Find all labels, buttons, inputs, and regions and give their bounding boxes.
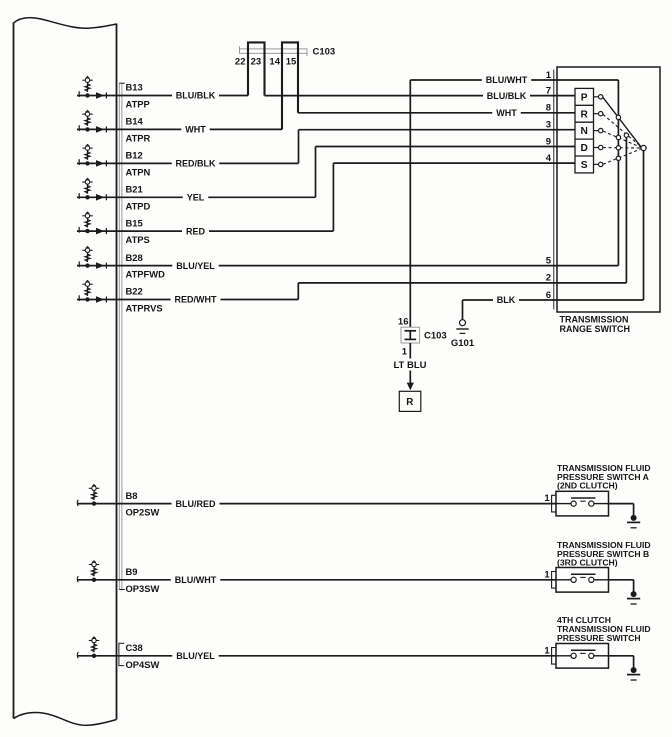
PCM pin symbol at B15 xyxy=(79,212,106,234)
PCM connector B bracket xyxy=(119,83,125,589)
PCM pin symbol at C38 xyxy=(77,637,99,658)
svg-text:WHT: WHT xyxy=(496,108,517,118)
wire LT BLU upper segment xyxy=(409,343,411,359)
wire range switch vertical to pin 2 xyxy=(625,135,627,283)
PCM pin symbol at B14 xyxy=(79,110,106,132)
wire BLU/YEL from pin B28 xyxy=(77,265,618,267)
svg-text:LT BLU: LT BLU xyxy=(393,360,426,371)
wire BLU/WHT range switch pin 1 xyxy=(410,79,618,81)
label pin B22/ATPRVS xyxy=(126,286,163,314)
label range switch pin 6 xyxy=(546,290,551,301)
contact circle S xyxy=(599,162,603,166)
label range switch pin 5 xyxy=(546,255,552,266)
svg-text:R: R xyxy=(581,109,589,120)
label pin 1 of pressure switch 4th clutch xyxy=(544,645,550,656)
svg-text:B21: B21 xyxy=(126,184,143,195)
svg-text:ATPD: ATPD xyxy=(126,200,151,211)
svg-text:BLU/BLK: BLU/BLK xyxy=(487,91,527,101)
wire RED/WHT to range switch pin 2 xyxy=(298,282,626,284)
wire range switch common vertical (pin1-pin5) xyxy=(617,80,619,266)
label pin B13/ATPP xyxy=(126,82,150,110)
label range switch pin 7 xyxy=(546,85,551,96)
ground at pressure switch 4th clutch xyxy=(609,656,641,680)
svg-text:BLU/WHT: BLU/WHT xyxy=(486,75,528,85)
label range switch pin 4 xyxy=(546,153,552,164)
svg-text:D: D xyxy=(581,143,588,154)
contact circle D crossing xyxy=(616,146,620,150)
svg-text:BLU/YEL: BLU/YEL xyxy=(176,651,215,661)
wire RED/BLK from pin B12 xyxy=(77,162,299,164)
svg-text:23: 23 xyxy=(251,56,262,67)
ground at pressure switch B (3rd clutch) xyxy=(609,580,641,604)
wire RED from pin B15 xyxy=(77,230,333,232)
svg-text:16: 16 xyxy=(398,316,409,327)
ground at pressure switch A (2nd clutch) xyxy=(609,504,641,528)
svg-text:RANGE SWITCH: RANGE SWITCH xyxy=(560,324,631,334)
svg-text:BLU/RED: BLU/RED xyxy=(176,499,216,509)
PCM pin symbol at B22 xyxy=(79,281,106,303)
selector arm D position (dashed) xyxy=(603,147,641,149)
ground G101 symbol xyxy=(456,320,468,334)
selector common node xyxy=(641,145,646,150)
svg-text:1: 1 xyxy=(546,70,552,81)
svg-text:1: 1 xyxy=(402,347,408,358)
svg-text:R: R xyxy=(406,397,413,408)
svg-text:5: 5 xyxy=(546,255,552,266)
label wire colour BLK xyxy=(497,295,516,305)
svg-text:4: 4 xyxy=(546,153,552,164)
svg-text:BLU/YEL: BLU/YEL xyxy=(176,261,215,271)
svg-text:9: 9 xyxy=(546,136,551,147)
label wire colour BLU/YEL xyxy=(176,651,215,661)
label pin B21/ATPD xyxy=(126,184,151,212)
label wire colour WHT (right) xyxy=(496,108,517,118)
svg-text:B15: B15 xyxy=(126,217,143,228)
label wire colour RED xyxy=(186,226,206,236)
label wire colour BLU/BLK (right) xyxy=(487,91,527,101)
label wire colour WHT xyxy=(185,125,206,135)
label C103 (lower) xyxy=(424,331,447,342)
label range switch pin 2 xyxy=(546,273,551,284)
svg-text:B12: B12 xyxy=(126,150,143,161)
svg-text:B8: B8 xyxy=(126,490,138,501)
label transmission range switch xyxy=(560,315,631,334)
connector C103 bar xyxy=(240,46,308,56)
label G101 xyxy=(451,338,475,349)
transmission fluid pressure switch 4th clutch xyxy=(552,644,609,669)
svg-text:ATPRVS: ATPRVS xyxy=(126,303,163,314)
svg-text:B9: B9 xyxy=(126,566,138,577)
svg-text:YEL: YEL xyxy=(187,193,205,203)
contact circle R xyxy=(599,112,603,116)
svg-text:C103: C103 xyxy=(424,331,447,342)
svg-text:B13: B13 xyxy=(126,82,143,93)
svg-text:P: P xyxy=(581,92,588,103)
wire WHT C103 pin 15 to range switch pin 8 xyxy=(298,112,575,114)
label wire colour BLU/BLK xyxy=(176,91,216,101)
PCM connector C bracket xyxy=(119,643,124,665)
PCM pin symbol at B8 xyxy=(77,485,99,506)
svg-text:G101: G101 xyxy=(451,338,475,349)
wire to ground G101 xyxy=(462,300,464,320)
PCM module torn bottom edge xyxy=(14,713,117,726)
transmission range switch outline xyxy=(557,67,660,312)
label pin 1 (lower C103) xyxy=(402,347,408,358)
contact circle N crossing xyxy=(616,135,620,139)
label pressure switch A (2nd clutch) xyxy=(557,463,651,491)
contact circle R crossing xyxy=(624,133,628,137)
svg-text:ATPN: ATPN xyxy=(126,166,151,177)
selector arm S position (dashed) xyxy=(603,149,641,164)
label connector C103 xyxy=(313,46,336,57)
label position S xyxy=(581,160,588,171)
label pin B28/ATPFWD xyxy=(126,252,166,280)
label pin B15/ATPS xyxy=(126,217,150,245)
svg-text:BLK: BLK xyxy=(497,295,516,305)
contact circle N xyxy=(599,128,603,132)
C103 pass-through staple pins 14-15 xyxy=(282,42,298,129)
PCM module left edge wire xyxy=(13,23,15,719)
svg-text:8: 8 xyxy=(546,103,551,114)
svg-text:PRESSURE SWITCH: PRESSURE SWITCH xyxy=(557,633,641,643)
svg-text:ATPFWD: ATPFWD xyxy=(126,269,166,280)
PCM pin symbol at B13 xyxy=(79,77,106,99)
transmission fluid pressure switch B (3rd clutch) xyxy=(552,568,609,593)
label pin 1 of pressure switch B (3rd clutch) xyxy=(544,569,550,580)
selector arm N position (dashed) xyxy=(603,131,641,147)
PCM module torn top edge xyxy=(14,18,117,29)
svg-text:22: 22 xyxy=(235,56,246,67)
label C103 pin 23 xyxy=(251,56,262,67)
wire BLU/WHT vertical to C103 pin 16 xyxy=(409,80,411,327)
wire BLU/BLK from pin B13 xyxy=(77,95,248,97)
node R (back-up lights) xyxy=(399,391,421,411)
label C103 pin 14 xyxy=(269,56,280,67)
label position D xyxy=(581,143,588,154)
svg-text:1: 1 xyxy=(544,569,550,580)
svg-text:6: 6 xyxy=(546,290,551,301)
label pin B14/ATPR xyxy=(126,116,151,144)
svg-text:7: 7 xyxy=(546,85,551,96)
wire BLK ground to range switch pin 6 xyxy=(463,299,644,301)
svg-text:(2ND CLUTCH): (2ND CLUTCH) xyxy=(557,481,618,491)
svg-text:BLU/WHT: BLU/WHT xyxy=(175,575,217,585)
svg-text:15: 15 xyxy=(286,56,297,67)
label range switch pin 3 xyxy=(546,120,551,131)
svg-text:OP4SW: OP4SW xyxy=(126,659,160,670)
wire jog B22 to range-switch pin 2 row xyxy=(297,283,299,300)
label position N xyxy=(581,126,588,137)
svg-text:RED: RED xyxy=(186,226,206,236)
wire WHT from pin B14 xyxy=(77,128,282,130)
svg-text:C103: C103 xyxy=(313,46,336,57)
svg-text:BLU/BLK: BLU/BLK xyxy=(176,91,216,101)
svg-text:WHT: WHT xyxy=(185,125,206,135)
label wire colour BLU/WHT xyxy=(175,575,217,585)
label pressure switch B (3rd clutch) xyxy=(557,540,651,568)
C103 pass-through staple pins 22-23 xyxy=(248,42,265,95)
label range switch pin 9 xyxy=(546,136,551,147)
svg-text:1: 1 xyxy=(544,493,550,504)
label range switch pin 8 xyxy=(546,103,551,114)
svg-text:B22: B22 xyxy=(126,286,143,297)
label range switch pin 1 xyxy=(546,70,552,81)
wire jog B21 to range-switch pin 9 row xyxy=(315,147,317,198)
label wire colour BLU/RED xyxy=(176,499,216,509)
wire jog B15 to range-switch pin 4 row xyxy=(332,163,334,231)
svg-text:ATPR: ATPR xyxy=(126,132,151,143)
svg-text:B14: B14 xyxy=(126,116,144,127)
svg-text:S: S xyxy=(581,160,588,171)
svg-text:2: 2 xyxy=(546,273,551,284)
selector arm R position (dashed) xyxy=(603,114,641,146)
svg-text:ATPS: ATPS xyxy=(126,234,150,245)
label pin B8/OP2SW xyxy=(126,490,160,518)
svg-text:3: 3 xyxy=(546,120,551,131)
svg-text:OP3SW: OP3SW xyxy=(126,583,160,594)
svg-text:RED/BLK: RED/BLK xyxy=(176,159,216,169)
label wire colour RED/BLK xyxy=(176,159,216,169)
label pin B12/ATPN xyxy=(126,150,151,178)
label wire colour BLU/YEL xyxy=(176,261,215,271)
wire BLU/RED from pin B8 xyxy=(77,503,556,505)
wire range switch vertical to pin 6 xyxy=(643,148,645,300)
label C103 pin 22 xyxy=(235,56,246,67)
wire BLU/WHT from pin B9 xyxy=(77,579,556,581)
svg-text:RED/WHT: RED/WHT xyxy=(175,295,217,305)
label wire colour YEL xyxy=(187,193,205,203)
label position R xyxy=(581,109,589,120)
wire YEL from pin B21 xyxy=(77,196,316,198)
label C103 pin 15 xyxy=(286,56,297,67)
range switch contact stubs xyxy=(594,97,599,165)
wire RED to range switch pin 4 xyxy=(333,162,575,164)
wire jog B12 to range-switch pin 3 row xyxy=(298,130,300,164)
wire YEL to range switch pin 9 xyxy=(316,146,576,148)
svg-text:(3RD CLUTCH): (3RD CLUTCH) xyxy=(557,558,618,568)
PCM pin symbol at B9 xyxy=(77,561,99,582)
PCM pin symbol at B28 xyxy=(79,247,106,269)
contact circle D xyxy=(599,145,603,149)
wire BLU/BLK C103 pin 23 to range switch pin 7 xyxy=(265,95,576,97)
connector C103 pin 16 body xyxy=(401,327,420,343)
svg-text:OP2SW: OP2SW xyxy=(126,507,160,518)
PCM pin symbol at B12 xyxy=(79,144,106,166)
contact circle P xyxy=(599,95,603,99)
label position P xyxy=(581,92,588,103)
wire BLU/YEL from pin C38 xyxy=(77,655,556,657)
label pressure switch 4th clutch xyxy=(557,615,651,643)
label wire colour RED/WHT xyxy=(175,295,217,305)
svg-text:1: 1 xyxy=(544,645,550,656)
svg-text:14: 14 xyxy=(269,56,280,67)
label wire colour BLU/WHT xyxy=(486,75,528,85)
label pin 1 of pressure switch A (2nd clutch) xyxy=(544,493,550,504)
wire riser B13 to C103 pin 22 xyxy=(247,53,249,96)
selector arm P position (solid) xyxy=(603,97,641,147)
label wire colour LT BLU xyxy=(393,360,426,371)
wire RED/WHT from pin B22 xyxy=(77,299,298,301)
PCM module right edge wire xyxy=(116,24,118,720)
PCM pin symbol at B21 xyxy=(79,178,106,200)
wire riser B14 to C103 pin 14 xyxy=(281,53,283,129)
contact circle S crossing xyxy=(616,156,620,160)
label pin C38/OP4SW xyxy=(126,642,160,670)
svg-text:ATPP: ATPP xyxy=(126,99,150,110)
svg-text:N: N xyxy=(581,126,588,137)
label C103 pin 16 xyxy=(398,316,409,327)
wire LT BLU lower segment with arrow xyxy=(407,371,414,391)
svg-text:C38: C38 xyxy=(126,642,143,653)
wire RED/BLK to range switch pin 3 xyxy=(299,129,576,131)
range switch position cells xyxy=(575,88,594,172)
label pin B9/OP3SW xyxy=(126,566,160,594)
transmission fluid pressure switch A (2nd clutch) xyxy=(552,491,609,516)
range switch connector face xyxy=(553,70,555,310)
svg-text:B28: B28 xyxy=(126,252,143,263)
contact circle on arm (P row crossing) xyxy=(616,115,620,119)
